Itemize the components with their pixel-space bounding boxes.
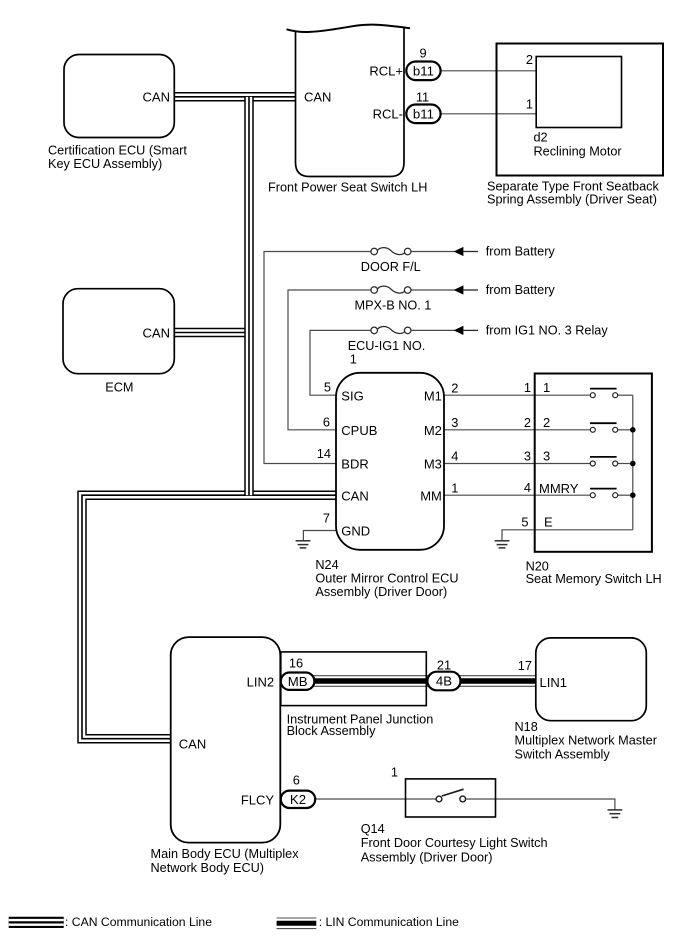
svg-text:from Battery: from Battery bbox=[486, 245, 556, 259]
switch MMRY (seat memory) bbox=[535, 489, 633, 498]
wire N24 M2 to seat memory switch pin 2 bbox=[444, 429, 535, 431]
svg-text:Separate Type Front Seatback: Separate Type Front Seatback bbox=[487, 179, 660, 193]
svg-text:7: 7 bbox=[323, 511, 330, 526]
svg-text:1: 1 bbox=[524, 380, 531, 395]
fuse ECU-IG1 NO. 1 bbox=[371, 327, 411, 334]
svg-text:2: 2 bbox=[526, 52, 533, 67]
svg-text:4B: 4B bbox=[436, 674, 452, 689]
switch 2 (seat memory) bbox=[535, 423, 633, 432]
wire RCL+ b11 to reclining motor pin 2 bbox=[441, 70, 537, 72]
wire LIN: MB oval to 4B oval bbox=[313, 676, 429, 687]
wire RCL- b11 to reclining motor pin 1 bbox=[441, 113, 537, 115]
box reclining motor d2 bbox=[536, 57, 621, 128]
svg-text:GND: GND bbox=[341, 524, 370, 539]
wire N24 GND pin 7 to ground bbox=[303, 531, 336, 541]
svg-text:BDR: BDR bbox=[341, 457, 368, 472]
svg-text:4: 4 bbox=[451, 449, 458, 464]
svg-text:b11: b11 bbox=[413, 63, 434, 78]
svg-text:Assembly (Driver Door): Assembly (Driver Door) bbox=[361, 850, 493, 864]
svg-text:14: 14 bbox=[317, 446, 331, 461]
switch 3 (seat memory) bbox=[535, 457, 633, 466]
svg-text:1: 1 bbox=[451, 480, 458, 495]
svg-text:from Battery: from Battery bbox=[486, 283, 556, 297]
svg-text:: LIN Communication Line: : LIN Communication Line bbox=[319, 915, 459, 929]
svg-text:M3: M3 bbox=[424, 457, 442, 472]
legend LIN line symbol bbox=[277, 918, 317, 929]
legend CAN line symbol bbox=[9, 917, 64, 928]
svg-text:M2: M2 bbox=[424, 423, 442, 438]
svg-text:Block Assembly: Block Assembly bbox=[287, 724, 376, 738]
svg-text:4: 4 bbox=[524, 480, 531, 495]
svg-text:d2: d2 bbox=[534, 131, 548, 145]
svg-text:Front Power Seat Switch LH: Front Power Seat Switch LH bbox=[268, 181, 427, 195]
wire ECU-IG1 fuse to arrow bbox=[411, 329, 455, 331]
break line (wavy top of Front Power Seat Switch) bbox=[287, 25, 411, 32]
fuse DOOR F/L bbox=[371, 248, 411, 255]
svg-text:: CAN Communication Line: : CAN Communication Line bbox=[65, 915, 212, 929]
svg-text:ECM: ECM bbox=[105, 380, 133, 394]
svg-text:Front Door Courtesy Light Swit: Front Door Courtesy Light Switch bbox=[361, 836, 548, 850]
box Instrument Panel Junction Block bbox=[281, 652, 427, 706]
svg-text:1: 1 bbox=[350, 353, 357, 367]
node junction dot rowMMRY bbox=[630, 492, 636, 498]
svg-text:LIN1: LIN1 bbox=[540, 675, 567, 690]
wire MPX-B fuse to N24 CPUB pin 6 bbox=[288, 290, 371, 430]
svg-text:17: 17 bbox=[518, 658, 532, 673]
ground (Q14) bbox=[608, 810, 623, 818]
svg-text:CAN: CAN bbox=[341, 488, 368, 503]
svg-text:1: 1 bbox=[526, 97, 533, 112]
wire N24 M3 to seat memory switch pin 3 bbox=[444, 463, 535, 465]
svg-text:RCL+: RCL+ bbox=[369, 64, 403, 79]
wire N24 MM to seat memory switch pin 4 bbox=[444, 494, 535, 496]
svg-text:Key ECU Assembly): Key ECU Assembly) bbox=[48, 157, 162, 171]
svg-text:Outer Mirror Control ECU: Outer Mirror Control ECU bbox=[315, 572, 458, 586]
wire N24 M1 to seat memory switch pin 1 bbox=[444, 394, 535, 396]
wire Q14 to ground bbox=[466, 799, 615, 810]
svg-text:CAN: CAN bbox=[304, 90, 331, 105]
node junction dot row2 bbox=[630, 427, 636, 433]
svg-text:CAN: CAN bbox=[143, 325, 170, 340]
svg-text:Multiplex Network Master: Multiplex Network Master bbox=[515, 734, 658, 748]
connector oval K2 pin 6 bbox=[281, 791, 315, 808]
svg-text:21: 21 bbox=[437, 658, 451, 673]
svg-text:N18: N18 bbox=[515, 720, 538, 734]
ECU box N24 Outer Mirror Control ECU bbox=[336, 373, 444, 550]
svg-text:3: 3 bbox=[524, 449, 531, 464]
switch 1 (seat memory) bbox=[535, 389, 633, 398]
svg-text:Network Body ECU): Network Body ECU) bbox=[151, 861, 265, 875]
box Separate Type Front Seatback Spring Assembly bbox=[497, 44, 664, 176]
svg-text:CAN: CAN bbox=[179, 737, 206, 752]
box N20 Seat Memory Switch bbox=[535, 374, 652, 552]
wire LIN: 4B oval to N18 LIN1 bbox=[459, 676, 536, 687]
arrow from IG1 NO. 3 Relay bbox=[454, 326, 464, 335]
svg-text:MB: MB bbox=[288, 674, 308, 689]
wire MPX-B fuse to arrow bbox=[411, 289, 455, 291]
ECU box Main Body ECU bbox=[171, 637, 281, 843]
svg-text:2: 2 bbox=[524, 415, 531, 430]
svg-text:N24: N24 bbox=[315, 558, 338, 572]
connector oval 4B pin 21 bbox=[427, 672, 460, 691]
connector oval MB pin 16 bbox=[281, 673, 315, 690]
svg-text:Seat Memory Switch LH: Seat Memory Switch LH bbox=[526, 572, 662, 586]
svg-text:3: 3 bbox=[543, 449, 550, 464]
svg-text:Assembly (Driver Door): Assembly (Driver Door) bbox=[315, 585, 447, 599]
svg-text:16: 16 bbox=[289, 656, 303, 671]
connector oval b11 pin 11 bbox=[406, 105, 440, 124]
wire K2 to Q14 courtesy switch bbox=[313, 798, 436, 800]
svg-text:K2: K2 bbox=[290, 792, 306, 807]
svg-text:Switch Assembly: Switch Assembly bbox=[515, 748, 611, 762]
wire ECU-IG1 fuse to N24 SIG pin 5 bbox=[310, 330, 371, 395]
wire common bus inside seat memory switch bbox=[632, 395, 634, 530]
svg-text:DOOR F/L: DOOR F/L bbox=[361, 260, 421, 274]
ground (seat memory switch E) bbox=[495, 541, 510, 548]
svg-text:1: 1 bbox=[543, 380, 550, 395]
ECU box N18 Multiplex Network Master Switch bbox=[536, 638, 647, 721]
svg-text:from IG1 NO. 3 Relay: from IG1 NO. 3 Relay bbox=[486, 324, 609, 338]
switch Q14 contacts bbox=[436, 789, 466, 802]
svg-text:2: 2 bbox=[543, 415, 550, 430]
svg-text:E: E bbox=[544, 514, 553, 529]
fuse MPX-B NO. 1 bbox=[371, 286, 411, 293]
svg-text:Q14: Q14 bbox=[361, 822, 385, 836]
wire DOOR F/L fuse to arrow bbox=[411, 251, 455, 253]
svg-text:MM: MM bbox=[420, 488, 442, 503]
svg-text:MPX-B NO. 1: MPX-B NO. 1 bbox=[355, 298, 432, 312]
wire DOOR F/L fuse to N24 BDR pin 14 bbox=[264, 252, 371, 464]
svg-text:Reclining Motor: Reclining Motor bbox=[534, 145, 623, 159]
svg-text:6: 6 bbox=[323, 415, 330, 430]
wire CAN bus: vertical trunk bbox=[244, 97, 254, 495]
node junction dot row3 bbox=[630, 461, 636, 467]
wire CAN bus: ECM to vertical CAN trunk bbox=[174, 328, 249, 338]
ground (N24 GND) bbox=[296, 541, 311, 548]
ECU box ECM bbox=[63, 289, 174, 374]
svg-text:MMRY: MMRY bbox=[539, 481, 579, 496]
svg-text:M1: M1 bbox=[424, 388, 442, 403]
svg-text:FLCY: FLCY bbox=[241, 792, 275, 807]
box Front Power Seat Switch (open top) bbox=[296, 28, 405, 177]
box Q14 courtesy light switch bbox=[406, 779, 496, 817]
svg-text:LIN2: LIN2 bbox=[247, 675, 274, 690]
svg-text:5: 5 bbox=[324, 379, 331, 394]
wire CAN bus: N24 CAN pin to Main Body ECU CAN pin bbox=[82, 495, 337, 739]
svg-text:CAN: CAN bbox=[143, 90, 170, 105]
arrow from Battery (DOOR F/L) bbox=[454, 247, 464, 256]
svg-text:SIG: SIG bbox=[341, 388, 363, 403]
connector oval b11 pin 9 bbox=[406, 62, 440, 81]
svg-text:RCL-: RCL- bbox=[373, 107, 403, 122]
svg-text:11: 11 bbox=[416, 90, 429, 105]
svg-text:6: 6 bbox=[293, 773, 300, 788]
svg-text:Spring Assembly (Driver Seat): Spring Assembly (Driver Seat) bbox=[487, 192, 657, 206]
wire CAN bus: Certification ECU to Front Power Seat Switch bbox=[174, 92, 295, 102]
svg-text:9: 9 bbox=[419, 45, 426, 60]
svg-text:1: 1 bbox=[391, 765, 398, 780]
svg-text:2: 2 bbox=[451, 380, 458, 395]
svg-text:ECU-IG1 NO.: ECU-IG1 NO. bbox=[348, 339, 426, 353]
svg-text:5: 5 bbox=[521, 514, 528, 529]
svg-text:b11: b11 bbox=[413, 106, 434, 121]
svg-text:CPUB: CPUB bbox=[341, 423, 377, 438]
svg-text:3: 3 bbox=[451, 415, 458, 430]
arrow from Battery (MPX-B) bbox=[454, 285, 464, 294]
svg-text:Main Body ECU (Multiplex: Main Body ECU (Multiplex bbox=[151, 847, 300, 861]
ECU box Certification ECU bbox=[64, 55, 174, 138]
svg-text:Certification ECU (Smart: Certification ECU (Smart bbox=[48, 144, 187, 158]
wire E row to ground bbox=[502, 530, 633, 541]
